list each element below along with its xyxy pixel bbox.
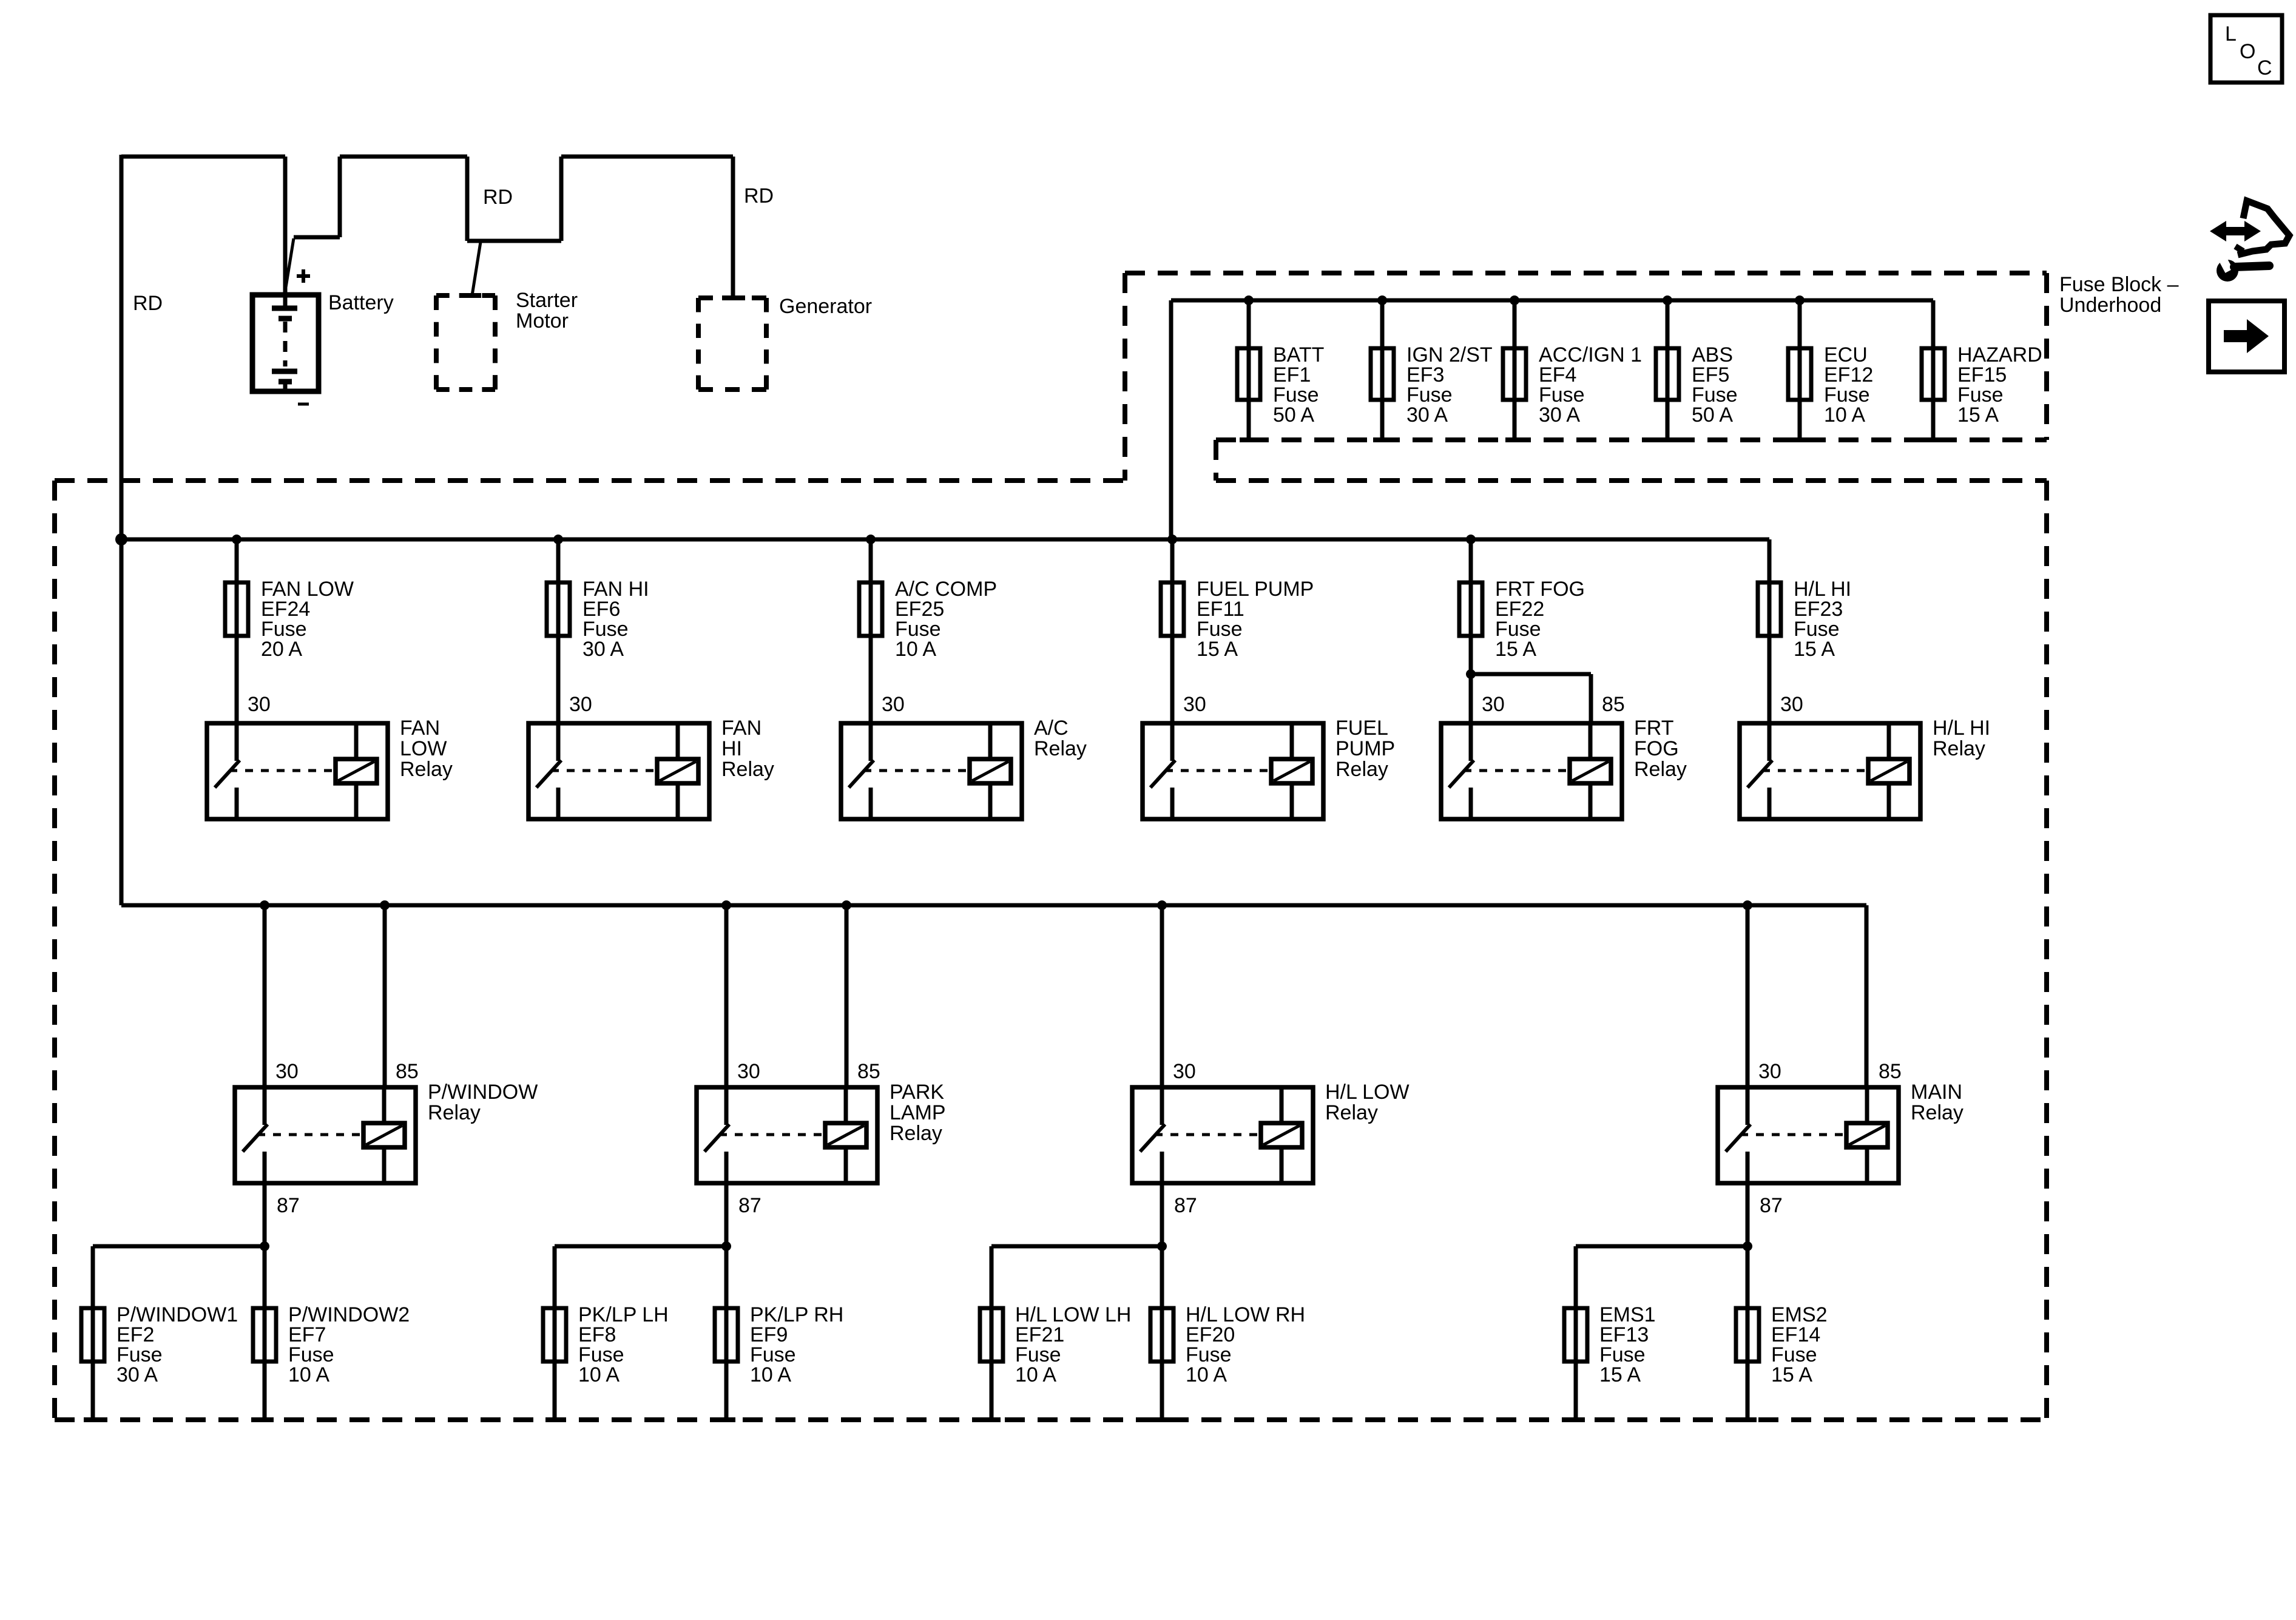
label fuse EF5 [1692, 343, 1738, 427]
fuse EF4 [1503, 300, 1526, 440]
label fuse EF3 [1406, 343, 1493, 427]
relay FAN HI relay [528, 723, 709, 819]
svg-text:85: 85 [1602, 693, 1625, 716]
label fuse EF9 [750, 1303, 843, 1386]
svg-text:Relay: Relay [721, 758, 774, 781]
svg-text:Relay: Relay [890, 1122, 942, 1145]
svg-text:L: L [2225, 22, 2237, 46]
node junction bus/EF12 [1795, 295, 1805, 305]
label battery minus [298, 403, 309, 406]
svg-text:50 A: 50 A [1692, 403, 1733, 427]
svg-text:30: 30 [1780, 693, 1803, 716]
label fuse EF11 [1197, 578, 1314, 661]
label RD starter [483, 186, 513, 209]
relay H/L LOW relay [1132, 1087, 1313, 1183]
relay H/L HI relay [1740, 723, 1920, 819]
node junction lower bus/P/WINDOW 85 [380, 900, 390, 910]
label fuse EF20 [1186, 1303, 1305, 1386]
label fuse EF22 [1495, 578, 1585, 661]
fuse EF8 [543, 1272, 566, 1420]
svg-text:Starter: Starter [516, 289, 578, 312]
label fuse EF6 [582, 578, 649, 661]
label fuse EF14 [1771, 1303, 1828, 1386]
relay A/C relay [841, 723, 1022, 819]
node junction FRT FOG branch [1466, 669, 1476, 679]
node junction lower bus/P/WINDOW 30 [260, 900, 269, 910]
svg-text:10 A: 10 A [750, 1363, 791, 1386]
label fuse EF8 [578, 1303, 669, 1386]
svg-text:85: 85 [1879, 1060, 1902, 1083]
icon connector and wrench (repair info) [2210, 201, 2289, 282]
label Fuse Block - Underhood [2059, 273, 2179, 317]
wire RD top bus 2 (starter feed) [340, 157, 467, 241]
svg-text:RD: RD [133, 292, 163, 315]
svg-text:30: 30 [1758, 1060, 1781, 1083]
wire jog battery splice [285, 237, 340, 295]
fuse block underhood dashed boundary (top fuse strip) [1125, 273, 2047, 481]
svg-text:30: 30 [1173, 1060, 1196, 1083]
label terminal 30 H/L LOW [1173, 1060, 1196, 1083]
svg-text:Relay: Relay [428, 1101, 481, 1124]
node junction upper bus/EF22 [1466, 535, 1476, 544]
svg-text:Underhood: Underhood [2059, 294, 2161, 317]
fuse EF21 [980, 1272, 1003, 1420]
svg-text:30 A: 30 A [582, 638, 624, 661]
svg-text:30: 30 [569, 693, 592, 716]
relay FUEL PUMP relay [1143, 723, 1323, 819]
wire 85 feed P/WINDOW [383, 905, 387, 1087]
wire 30 feed PARK LAMP [724, 905, 729, 1087]
node junction upper bus/EF25 [866, 535, 876, 544]
label terminal 30 H/L HI [1780, 693, 1803, 716]
fuse EF11 [1161, 539, 1184, 723]
svg-text:Relay: Relay [1634, 758, 1687, 781]
svg-text:Motor: Motor [516, 309, 569, 332]
svg-text:10 A: 10 A [895, 638, 936, 661]
wire 30 feed P/WINDOW [263, 905, 267, 1087]
svg-text:20 A: 20 A [261, 638, 302, 661]
fuse EF20 [1150, 1246, 1173, 1420]
svg-text:30: 30 [1183, 693, 1206, 716]
label fuse EF12 [1824, 343, 1873, 427]
svg-text:H/L LOW: H/L LOW [1325, 1081, 1410, 1104]
relay P/WINDOW relay [235, 1087, 416, 1183]
label fuse EF13 [1599, 1303, 1656, 1386]
fuse EF25 [859, 539, 882, 723]
fuse EF24 [225, 539, 248, 723]
svg-text:PUMP: PUMP [1335, 737, 1395, 760]
label fuse EF4 [1539, 343, 1642, 427]
node junction lower bus/PARK LAMP 85 [842, 900, 851, 910]
svg-text:87: 87 [738, 1194, 761, 1217]
node junction 87 split EF20 [1157, 1241, 1167, 1251]
label terminal 30 FAN HI [569, 693, 592, 716]
relay FRT FOG relay [1441, 723, 1622, 819]
label terminal 30 A/C [882, 693, 905, 716]
svg-text:FRT: FRT [1634, 717, 1673, 740]
wire 85 feed PARK LAMP [845, 905, 849, 1087]
wire 87 output EF13/EF14 [1576, 1183, 1747, 1308]
battery [252, 295, 319, 391]
relay MAIN relay [1718, 1087, 1899, 1183]
svg-text:Relay: Relay [1933, 737, 1985, 760]
svg-text:30: 30 [248, 693, 271, 716]
svg-text:RD: RD [483, 186, 513, 209]
svg-text:15 A: 15 A [1957, 403, 1999, 427]
svg-text:FOG: FOG [1634, 737, 1679, 760]
label fuse EF25 [895, 578, 997, 661]
svg-text:Generator: Generator [779, 295, 872, 318]
wire RD top bus 1 (battery feed) [121, 157, 285, 295]
svg-text:30 A: 30 A [1406, 403, 1448, 427]
label terminal 87 H/L LOW [1174, 1194, 1197, 1217]
label terminal 85 P/WINDOW [396, 1060, 419, 1083]
wire 87 output EF2/EF7 [93, 1183, 265, 1308]
fuse EF3 [1371, 300, 1394, 440]
svg-text:P/WINDOW: P/WINDOW [428, 1081, 538, 1104]
svg-text:Relay: Relay [1325, 1101, 1378, 1124]
fuse EF5 [1656, 300, 1679, 440]
fuse EF23 [1758, 539, 1781, 723]
label fuse EF24 [261, 578, 354, 661]
svg-text:O: O [2240, 40, 2255, 63]
node junction lower bus/PARK LAMP 30 [721, 900, 731, 910]
node junction upper bus/EF24 [232, 535, 241, 544]
svg-text:LOW: LOW [400, 737, 447, 760]
node junction lower bus/MAIN 30 [1743, 900, 1752, 910]
wire FRT FOG 85 branch [1471, 674, 1591, 723]
node junction upper bus/EF6 [553, 535, 563, 544]
svg-text:C: C [2257, 56, 2272, 79]
label fuse EF23 [1794, 578, 1851, 661]
svg-text:10 A: 10 A [288, 1363, 329, 1386]
svg-text:30: 30 [1482, 693, 1505, 716]
label terminal 85 FRT FOG [1602, 693, 1625, 716]
svg-text:Relay: Relay [1335, 758, 1388, 781]
label terminal 87 P/WINDOW [277, 1194, 300, 1217]
icon LOC box [2210, 15, 2282, 83]
node junction lower bus/H/L LOW 30 [1157, 900, 1167, 910]
svg-text:30 A: 30 A [1539, 403, 1580, 427]
svg-text:50 A: 50 A [1273, 403, 1314, 427]
svg-text:30 A: 30 A [116, 1363, 158, 1386]
label terminal 85 PARK LAMP [857, 1060, 880, 1083]
svg-text:30: 30 [882, 693, 905, 716]
fuse EF1 [1237, 300, 1260, 440]
label RD left [133, 292, 163, 315]
node junction 87 split EF9 [721, 1241, 731, 1251]
svg-text:LAMP: LAMP [890, 1101, 946, 1124]
node junction 87 split EF14 [1743, 1241, 1752, 1251]
svg-text:H/L HI: H/L HI [1933, 717, 1990, 740]
label terminal 85 MAIN [1879, 1060, 1902, 1083]
node junction bus/EF4 [1510, 295, 1519, 305]
svg-text:10 A: 10 A [1824, 403, 1865, 427]
svg-text:15 A: 15 A [1495, 638, 1536, 661]
relay FAN LOW relay [207, 723, 388, 819]
svg-text:30: 30 [737, 1060, 760, 1083]
svg-text:15 A: 15 A [1794, 638, 1835, 661]
fuse EF13 [1564, 1272, 1587, 1420]
svg-text:FUEL: FUEL [1335, 717, 1388, 740]
generator (dashed box) [698, 298, 766, 390]
svg-text:87: 87 [1174, 1194, 1197, 1217]
svg-text:30: 30 [275, 1060, 299, 1083]
svg-text:10 A: 10 A [1015, 1363, 1056, 1386]
fuse EF12 [1788, 300, 1811, 440]
icon forward arrow box [2209, 301, 2284, 372]
fuse EF22 [1459, 539, 1482, 674]
svg-text:15 A: 15 A [1599, 1363, 1641, 1386]
svg-text:Relay: Relay [1034, 737, 1087, 760]
fuse EF14 [1736, 1246, 1759, 1420]
node junction 87 split EF7 [260, 1241, 269, 1251]
wire 87 output EF8/EF9 [555, 1183, 726, 1308]
svg-text:Fuse Block –: Fuse Block – [2059, 273, 2179, 296]
svg-text:85: 85 [857, 1060, 880, 1083]
svg-text:15 A: 15 A [1197, 638, 1238, 661]
fuse block underhood dashed boundary (main box) [55, 481, 2047, 1420]
svg-text:85: 85 [396, 1060, 419, 1083]
label terminal 87 MAIN [1760, 1194, 1783, 1217]
label terminal 30 MAIN [1758, 1060, 1781, 1083]
node junction bus/EF1 [1244, 295, 1254, 305]
svg-text:87: 87 [1760, 1194, 1783, 1217]
label terminal 30 FUEL PUMP [1183, 693, 1206, 716]
label terminal 30 PARK LAMP [737, 1060, 760, 1083]
node junction bus/EF5 [1663, 295, 1672, 305]
node junction bus/EF3 [1377, 295, 1387, 305]
fuse EF9 [715, 1246, 738, 1420]
wire RD left vertical drop [120, 155, 124, 905]
fuse EF2 [81, 1272, 104, 1420]
svg-text:87: 87 [277, 1194, 300, 1217]
wire fuel pump feed vertical [1169, 300, 1173, 539]
wire 30 feed MAIN [1746, 905, 1750, 1087]
wire RD top bus 3 (generator feed) [561, 157, 733, 298]
label Starter Motor [516, 289, 578, 332]
wire top fuse strip bus [1171, 299, 1933, 303]
svg-text:PARK: PARK [890, 1081, 944, 1104]
label fuse EF15 [1957, 343, 2042, 427]
label Battery [328, 291, 394, 314]
fuse EF7 [253, 1246, 276, 1420]
wire main feed bus (upper) [121, 538, 1769, 542]
label terminal 87 PARK LAMP [738, 1194, 761, 1217]
svg-text:A/C: A/C [1034, 717, 1069, 740]
relay PARK LAMP relay [697, 1087, 877, 1183]
label fuse EF21 [1015, 1303, 1131, 1386]
svg-text:Battery: Battery [328, 291, 394, 314]
node junction left vertical/upper bus [115, 533, 127, 545]
node junction upper bus/EF11 [1167, 535, 1177, 544]
fuse EF15 [1922, 300, 1945, 440]
label fuse EF7 [288, 1303, 410, 1386]
fuse EF6 [547, 539, 570, 723]
svg-text:FAN: FAN [721, 717, 761, 740]
svg-text:HI: HI [721, 737, 742, 760]
label terminal 30 FAN LOW [248, 693, 271, 716]
svg-text:10 A: 10 A [1186, 1363, 1227, 1386]
label RD generator [744, 184, 774, 208]
label terminal 30 FRT FOG [1482, 693, 1505, 716]
wire 87 output EF21/EF20 [991, 1183, 1162, 1308]
label battery plus [297, 269, 310, 283]
svg-text:MAIN: MAIN [1911, 1081, 1962, 1104]
svg-text:Relay: Relay [1911, 1101, 1963, 1124]
wire jog starter splice [467, 241, 561, 295]
wire 30 feed H/L LOW [1160, 905, 1164, 1087]
svg-text:RD: RD [744, 184, 774, 208]
wire main feed bus (lower) [121, 905, 1866, 1087]
svg-text:Relay: Relay [400, 758, 453, 781]
label terminal 30 P/WINDOW [275, 1060, 299, 1083]
svg-text:FAN: FAN [400, 717, 440, 740]
label fuse EF1 [1273, 343, 1324, 427]
svg-text:10 A: 10 A [578, 1363, 620, 1386]
label fuse EF2 [116, 1303, 238, 1386]
label Generator [779, 295, 872, 318]
svg-text:15 A: 15 A [1771, 1363, 1812, 1386]
starter motor (dashed box) [436, 295, 495, 390]
